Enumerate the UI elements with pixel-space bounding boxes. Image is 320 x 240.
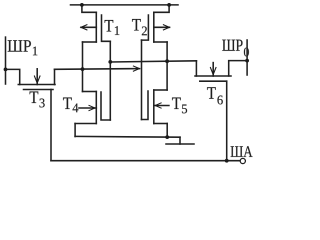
wire T5 source column: [166, 124, 168, 138]
transistor T4 gate: [101, 92, 110, 120]
ground: [179, 137, 181, 144]
transistor T1 channel: [95, 12, 97, 42]
wire gate line T1-T4: [109, 41, 111, 120]
label T3: [30, 92, 45, 108]
wire T3 source lead: [6, 69, 20, 84]
wire node A column: [82, 42, 84, 92]
transistor T3 substrate lead: [36, 69, 38, 85]
wire T2 source stub: [154, 41, 167, 43]
wire common source line: [75, 135, 180, 138]
arrowhead T5 substrate: [154, 104, 159, 108]
arrowhead T3 substrate: [35, 79, 39, 84]
wire T6 source stub: [229, 61, 247, 76]
node dot rail right: [167, 3, 171, 7]
label T6: [207, 87, 223, 104]
transistor T1 substrate lead: [81, 26, 96, 28]
node dot B column: [165, 59, 169, 63]
transistor T2 substrate lead: [154, 26, 170, 28]
arrowhead node A line: [136, 67, 141, 71]
transistor T6 channel: [195, 75, 231, 77]
wire T4 drain stub: [83, 91, 97, 93]
wire T5 drain stub: [154, 89, 167, 91]
wire T2 drain lead: [154, 5, 169, 12]
transistor T3 channel: [18, 84, 55, 86]
transistor T5 channel: [153, 90, 155, 124]
node dot A column: [81, 67, 85, 71]
node dot word line: [225, 159, 229, 163]
node dot SHR0: [245, 59, 249, 63]
transistor T2 gate: [142, 15, 149, 40]
transistor T6 gate: [200, 80, 227, 82]
label T4: [63, 98, 78, 113]
transistor T6 substrate lead: [212, 63, 214, 76]
transistor T4 substrate lead: [79, 107, 96, 109]
wire T3 drain rise: [54, 69, 56, 84]
wire T4 source column: [74, 124, 76, 137]
node dot rail left: [80, 3, 84, 7]
label T1: [105, 20, 120, 35]
transistor T1 gate: [102, 15, 111, 41]
power rail top: [71, 4, 179, 6]
wire node A line: [55, 68, 140, 71]
terminal SHA circle: [240, 158, 245, 163]
arrowhead T6 substrate: [211, 71, 215, 76]
transistor T2 channel: [153, 12, 155, 42]
label T5: [172, 98, 187, 114]
wire T1 source stub: [83, 41, 97, 43]
label SHA: [231, 146, 253, 157]
node dot SHR1: [4, 68, 8, 72]
wire T6 gate lead: [226, 81, 228, 161]
arrowhead T1 substrate: [80, 26, 85, 30]
transistor T5 gate: [142, 91, 149, 120]
wire T4 source stub: [75, 123, 96, 125]
wire T5 source stub: [154, 123, 167, 125]
transistor T5 substrate lead: [154, 105, 169, 107]
wire word line SHA: [51, 160, 240, 162]
wire bit line SHR0: [246, 40, 248, 75]
label SHR1: [8, 40, 38, 55]
wire T1 drain lead: [82, 5, 96, 12]
node dot ground line: [165, 135, 169, 139]
label T2: [132, 19, 147, 35]
label SHR0: [222, 40, 249, 57]
arrowhead T4 substrate: [91, 106, 96, 110]
wire T3 gate lead: [50, 90, 52, 161]
node dot gate line B: [108, 60, 112, 64]
transistor T3 gate: [24, 89, 54, 91]
wire T6 drain stub: [195, 61, 197, 76]
wire gate line T2-T5: [141, 40, 143, 119]
arrowhead T2 substrate: [166, 26, 171, 30]
transistor T4 channel: [95, 92, 97, 124]
wire bit line SHR1: [5, 37, 7, 84]
wire node B line: [110, 61, 196, 62]
wire node B column: [166, 42, 168, 90]
